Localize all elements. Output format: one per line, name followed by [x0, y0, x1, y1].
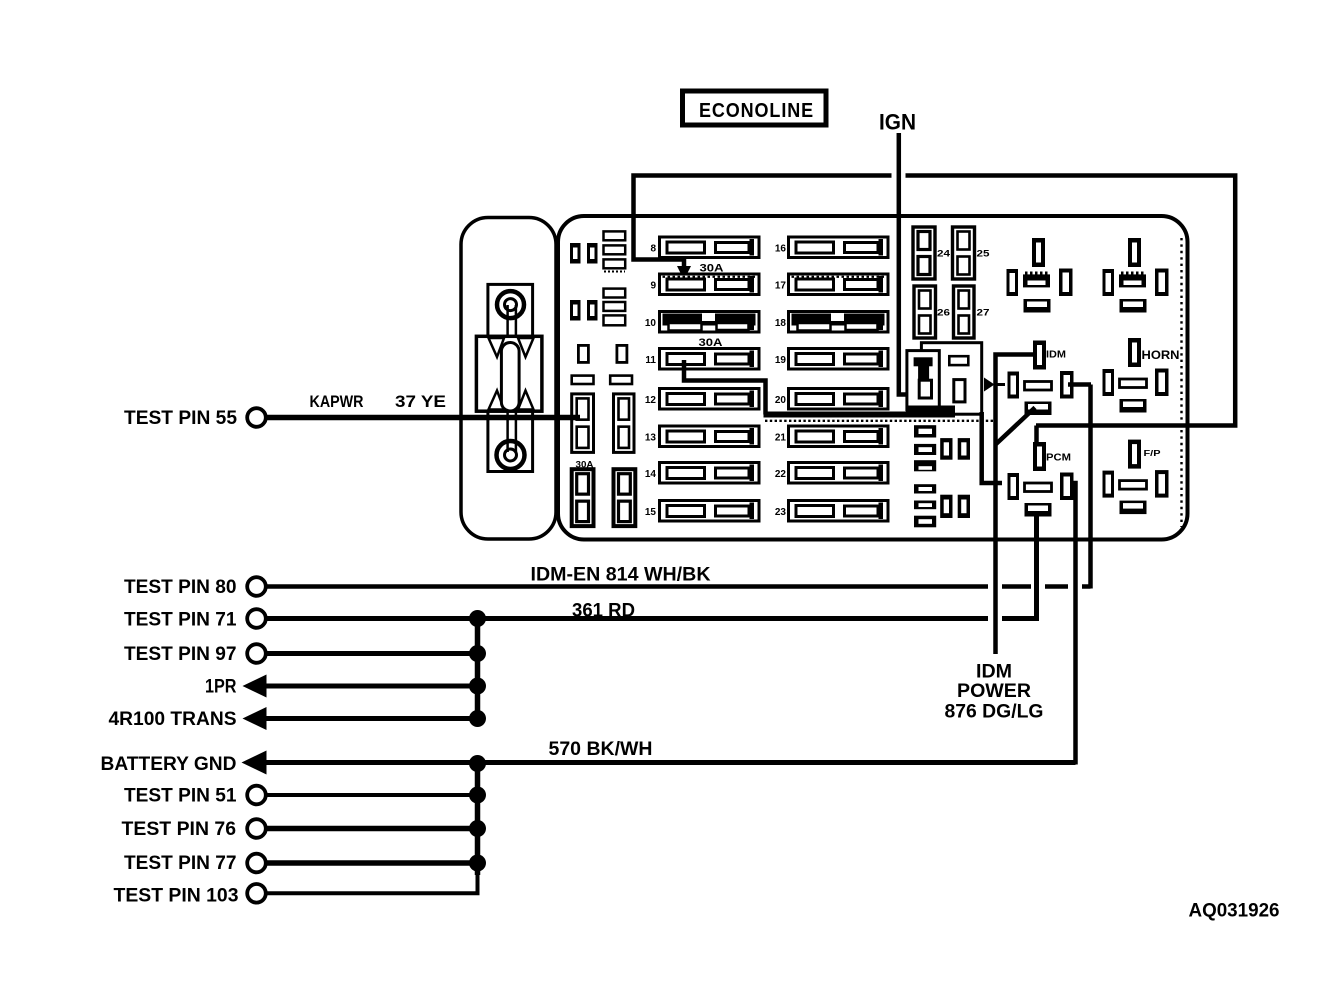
terminal sockets upper [940, 438, 970, 460]
diode key element [914, 357, 933, 398]
relay FP [1103, 440, 1169, 514]
svg-text:19: 19 [775, 355, 787, 366]
terminal TEST PIN 71 [247, 609, 266, 628]
label 30A lower [576, 460, 594, 471]
terminal TEST PIN 77 [247, 854, 266, 873]
terminal sockets lower [940, 495, 970, 518]
connector wing LT [489, 338, 505, 357]
svg-text:F/P: F/P [1144, 449, 1162, 458]
label TEST PIN 97 [124, 644, 237, 665]
svg-text:11: 11 [645, 355, 656, 366]
svg-text:8: 8 [650, 244, 656, 255]
small bar pair [572, 376, 632, 384]
fuse 20 [775, 389, 888, 410]
wire TEST PIN 103 [266, 861, 478, 893]
label 361 RD [572, 601, 635, 622]
svg-text:9: 9 [650, 281, 656, 292]
svg-text:17: 17 [775, 281, 787, 292]
diode module inner [907, 351, 939, 410]
connector box [461, 218, 556, 540]
fuse 14 [645, 463, 759, 484]
svg-text:4R100 TRANS: 4R100 TRANS [109, 709, 237, 730]
terminal TEST PIN 80 [247, 577, 266, 596]
relay upper right [1103, 238, 1169, 313]
label 1PR [205, 677, 237, 698]
connector body [488, 284, 533, 471]
svg-text:18: 18 [775, 318, 787, 329]
relay IDM [1008, 341, 1074, 416]
terminal TEST PIN 103 [247, 884, 266, 903]
fuse 10 [645, 312, 759, 333]
wire 361 RD [266, 512, 1037, 619]
fuse 27 [954, 286, 990, 338]
terminal TEST PIN 76 [247, 819, 266, 838]
wire fuse 11 feed [684, 360, 955, 415]
diode module base [906, 406, 955, 417]
label TEST PIN 71 [124, 610, 237, 631]
relay upper middle [1007, 238, 1073, 313]
connector stem top [508, 305, 516, 346]
label TEST PIN 55 [124, 408, 237, 429]
label 570 BK/WH [549, 739, 653, 760]
arrow diode output [984, 378, 995, 392]
connector wing frame [476, 336, 542, 411]
svg-text:13: 13 [645, 433, 657, 444]
PDB right edge dots [1180, 238, 1182, 527]
svg-text:23: 23 [775, 507, 787, 518]
cartridge fuse right upper [614, 394, 635, 453]
label 30A fuse 9 [700, 263, 724, 275]
cartridge fuse left upper [572, 394, 594, 453]
svg-text:25: 25 [977, 249, 991, 260]
label TEST PIN 51 [124, 786, 237, 807]
terminal TEST PIN 55 [247, 408, 266, 427]
wire KAPWR [266, 415, 580, 421]
label BATTERY GND [101, 754, 237, 775]
fuse 11 [645, 349, 759, 370]
svg-text:15: 15 [645, 507, 657, 518]
svg-text:TEST PIN 71: TEST PIN 71 [124, 610, 237, 631]
terminal TEST PIN 97 [247, 644, 266, 663]
arrow BATTERY GND [242, 751, 267, 775]
svg-text:TEST PIN 76: TEST PIN 76 [122, 819, 237, 840]
mini breaker pair B [570, 300, 598, 321]
relay PCM [1008, 442, 1074, 517]
wire 4R100 TRANS [263, 716, 478, 721]
label IDM-EN 814 WH/BK [531, 565, 711, 586]
svg-text:24: 24 [937, 249, 951, 260]
svg-text:AQ031926: AQ031926 [1189, 901, 1280, 922]
svg-text:POWER: POWER [957, 681, 1031, 702]
svg-text:16: 16 [775, 244, 787, 255]
svg-text:30A: 30A [700, 263, 724, 275]
fuse 16 [775, 237, 888, 258]
wire 570 BK/WH [263, 483, 1076, 765]
wire TEST PIN 97 [266, 651, 478, 656]
cartridge fuse right lower [614, 469, 636, 526]
svg-text:30A: 30A [699, 337, 723, 349]
mini breaker pair A [570, 243, 598, 264]
wire PCM top stub [1034, 426, 1039, 444]
junction dots lower [469, 755, 486, 872]
label AQ031926 [1189, 901, 1280, 922]
svg-text:570 BK/WH: 570 BK/WH [549, 739, 653, 760]
fuse 15 [645, 501, 759, 522]
wire IGN loop to fuse 9 [634, 176, 1236, 426]
fuse 9 [650, 274, 759, 295]
wire TEST PIN 51 [266, 793, 478, 797]
svg-text:TEST PIN 97: TEST PIN 97 [124, 644, 237, 665]
svg-text:26: 26 [937, 308, 950, 319]
title box ECONOLINE [683, 91, 827, 125]
svg-text:IDM: IDM [1046, 349, 1066, 361]
relay HORN [1103, 338, 1180, 413]
svg-text:12: 12 [645, 395, 657, 406]
svg-text:IDM-EN 814 WH/BK: IDM-EN 814 WH/BK [531, 565, 711, 586]
label KAPWR [310, 393, 364, 411]
fuse 23 [775, 501, 888, 522]
svg-text:TEST PIN 77: TEST PIN 77 [124, 853, 237, 874]
bar stack B [604, 289, 626, 326]
fuse 22 [775, 463, 888, 484]
connector bottom circle [497, 441, 525, 469]
label TEST PIN 76 [122, 819, 237, 840]
connector wing RT [518, 338, 534, 357]
svg-text:TEST PIN 80: TEST PIN 80 [124, 577, 237, 598]
svg-text:20: 20 [775, 395, 787, 406]
diode module window [954, 380, 965, 402]
svg-text:1PR: 1PR [205, 677, 237, 698]
cartridge fuse left lower [572, 469, 594, 526]
svg-text:IDM: IDM [976, 662, 1012, 683]
junction bus lower [475, 764, 481, 876]
label TEST PIN 77 [124, 853, 237, 874]
fuse 24 [913, 227, 951, 279]
fuse 18 [775, 312, 888, 333]
label 4R100 TRANS [109, 709, 237, 730]
svg-text:HORN: HORN [1142, 348, 1180, 362]
diode module bar [949, 356, 968, 365]
arrow into fuse 9 [677, 266, 691, 280]
wire 1PR [263, 684, 478, 689]
svg-text:37 YE: 37 YE [395, 393, 446, 411]
wire IDM relay to loop [1068, 382, 1091, 387]
fuse 12 [645, 389, 759, 410]
wire IDM coil feed [996, 355, 1036, 655]
svg-text:KAPWR: KAPWR [310, 393, 364, 411]
svg-text:27: 27 [977, 308, 990, 319]
svg-text:TEST PIN 103: TEST PIN 103 [114, 886, 239, 907]
bar stack A [604, 231, 626, 271]
arrow 1PR [243, 675, 267, 698]
label IDM POWER 876 DG/LG [945, 662, 1044, 723]
fuse 19 [775, 349, 888, 370]
label IGN [879, 110, 916, 135]
svg-text:TEST PIN 51: TEST PIN 51 [124, 786, 237, 807]
svg-text:10: 10 [645, 318, 657, 329]
fuse 13 [645, 426, 759, 447]
label 37 YE [395, 393, 446, 411]
fuse 26 [914, 286, 950, 338]
terminal bars lower [914, 484, 936, 527]
terminal bars upper [914, 425, 936, 471]
svg-text:BATTERY GND: BATTERY GND [101, 754, 237, 775]
label TEST PIN 103 [114, 886, 239, 907]
connector capsule [501, 343, 519, 412]
dotted bus line [765, 420, 997, 422]
wire TEST PIN 76 [266, 826, 478, 832]
svg-text:22: 22 [775, 469, 787, 480]
connector stem bottom [508, 409, 516, 452]
svg-text:21: 21 [775, 433, 787, 444]
svg-text:ECONOLINE: ECONOLINE [699, 100, 814, 122]
fuse 8 [650, 237, 759, 258]
fuse 17 [775, 274, 888, 295]
svg-text:TEST PIN 55: TEST PIN 55 [124, 408, 237, 429]
fuse 21 [775, 426, 888, 447]
label 30A fuse 10 [699, 337, 723, 349]
wire diode to PCM [982, 385, 1005, 484]
fuse 25 [953, 227, 991, 279]
svg-text:876 DG/LG: 876 DG/LG [945, 702, 1044, 723]
label TEST PIN 80 [124, 577, 237, 598]
junction dots upper [469, 610, 486, 727]
arrow 4R100 TRANS [243, 707, 267, 730]
svg-text:14: 14 [645, 469, 657, 480]
svg-text:PCM: PCM [1046, 452, 1071, 464]
junction bus upper [475, 619, 481, 719]
connector wing LB [489, 391, 505, 410]
wire IGN [899, 133, 914, 395]
svg-text:361 RD: 361 RD [572, 601, 635, 622]
wire TEST PIN 77 [266, 860, 478, 866]
connector top circle [497, 291, 524, 318]
diode module outer [921, 343, 982, 415]
power distribution box [558, 216, 1188, 540]
connector wing RB [518, 391, 534, 410]
small socket pair [578, 345, 627, 362]
svg-text:IGN: IGN [879, 110, 916, 135]
wire IDM-EN 814 WH/BK [266, 385, 1091, 589]
terminal TEST PIN 51 [247, 786, 266, 805]
